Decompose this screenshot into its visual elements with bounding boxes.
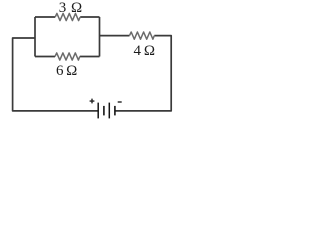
label: battery minus sign (118, 101, 122, 103)
wire: top branch leads around resistor R1 (35, 16, 100, 18)
resistor R1 (3 ohm) zigzag (55, 13, 80, 20)
wire: left branch (top stub from node A, left vertical, bottom run to battery +) (13, 38, 98, 111)
svg-text:3 Ω: 3 Ω (59, 0, 82, 16)
battery B1 negative short plate 1 (103, 106, 105, 116)
wire: parallel box left vertical (node A) (34, 17, 36, 57)
wire: parallel box right vertical (node B) (99, 17, 101, 57)
wire: bottom branch leads around resistor R2 (35, 56, 100, 58)
battery B1 negative short plate 2 (114, 106, 116, 116)
battery B1 positive long plate 1 (97, 103, 99, 119)
svg-text:4 Ω: 4 Ω (134, 43, 156, 59)
resistor R2 (6 ohm) zigzag (55, 53, 80, 60)
wire: right branch (node B to R3, R3 to corner, right vertical, bottom run to battery -) (100, 36, 172, 111)
label: battery plus sign (90, 99, 95, 104)
svg-text:6 Ω: 6 Ω (56, 63, 77, 79)
resistor R3 (4 ohm) zigzag (130, 32, 155, 39)
battery B1 positive long plate 2 (108, 103, 110, 119)
